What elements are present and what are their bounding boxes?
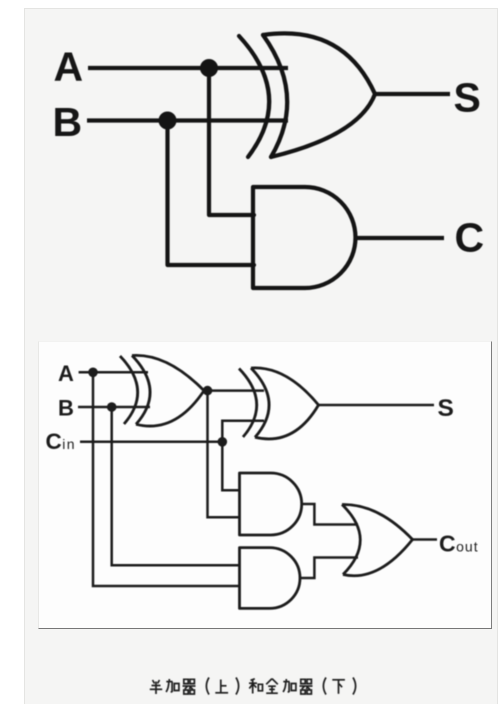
wire A riser to AND2 bottom input [93, 372, 240, 586]
xor gate U4 (full adder second sum) [239, 368, 319, 439]
white box of full adder [38, 341, 492, 629]
wire AND1 output to OR upper input [302, 504, 358, 525]
xor gate U3 (full adder first sum) [120, 355, 204, 426]
wire B input (half adder) [87, 118, 288, 122]
wire XOR1 output down to AND1 bottom input [208, 391, 240, 518]
node A junction (full adder) [88, 368, 98, 378]
caption glyph full 全 [266, 679, 278, 694]
caption glyph and 和 [249, 679, 263, 694]
wire Cout output (full adder) [413, 538, 438, 541]
wire Cin up to XOR2 lower input [222, 421, 264, 442]
wire A input (half adder) [88, 66, 288, 70]
wire B input (full adder) [78, 406, 150, 409]
wire XOR1 output to XOR2 upper input [204, 389, 264, 392]
node A junction (half adder) [200, 59, 218, 77]
caption glyph add 加 [166, 679, 179, 692]
node XOR1 output junction (full adder) [203, 386, 213, 396]
node B junction (full adder) [107, 402, 117, 412]
wire S output (half adder) [375, 92, 450, 96]
and gate U2 half-adder carry [253, 187, 355, 288]
wire B riser to AND2 top input [112, 407, 240, 565]
wire Cin down to AND1 top input [222, 442, 239, 490]
or gate U7 (full adder carry-out OR) [342, 504, 413, 575]
xor gate U1 half-adder sum [239, 33, 375, 157]
node B junction (half adder) [159, 112, 177, 130]
wire AND2 output to OR lower input [300, 558, 358, 579]
wire S output (full adder) [319, 404, 435, 407]
caption glyph up 上 [215, 680, 228, 693]
caption glyph device 器 (second) [300, 679, 313, 694]
caption glyph device 器 [183, 679, 196, 694]
node Cin junction (full adder) [218, 437, 228, 447]
and gate U5 (full adder AND of Cin,XOR1) [240, 473, 302, 535]
wire A junction to AND gate top input [209, 68, 254, 215]
caption glyph half 半 [150, 680, 162, 694]
caption glyph rparen ） (second) [353, 678, 356, 695]
and gate U6 (full adder AND of A,B) [240, 548, 301, 609]
wire B junction to AND gate bottom input [168, 121, 255, 266]
caption glyph down 下 [332, 680, 345, 694]
wire C output (half adder) [355, 236, 444, 240]
caption glyph add 加 (second) [283, 679, 296, 692]
wire A input (full adder) [79, 371, 148, 374]
caption glyph lparen （ [206, 678, 209, 695]
caption glyph rparen ） [236, 678, 239, 695]
caption glyph lparen （ (second) [323, 678, 326, 695]
wire Cin input (full adder) [80, 441, 222, 444]
